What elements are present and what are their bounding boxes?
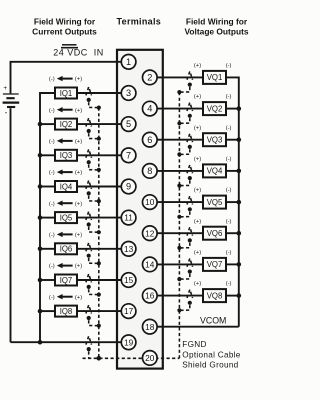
terminal 9 <box>121 179 136 194</box>
svg-text:IQ4: IQ4 <box>60 182 73 191</box>
junction: IQ4 on return bus <box>38 184 43 189</box>
terminal 16 <box>143 288 158 303</box>
voltage polarity labels for VQ4 <box>194 157 232 163</box>
cable shield symbol for 24 VDC supply cable <box>86 336 92 358</box>
terminal 15 <box>121 273 136 288</box>
load box VQ4 <box>203 164 226 177</box>
voltage polarity labels for VQ8 <box>194 281 232 287</box>
terminal 14 <box>143 257 158 272</box>
svg-text:IQ5: IQ5 <box>60 213 73 222</box>
svg-text:(-): (-) <box>49 233 55 239</box>
cable shield symbol for VQ3 <box>181 134 193 155</box>
wire: IQ6 to return bus <box>40 248 55 250</box>
current polarity labels and arrow for IQ1 <box>49 76 82 83</box>
terminal 17 <box>121 304 136 319</box>
voltage polarity labels for VQ2 <box>194 94 232 100</box>
voltage polarity labels for VQ1 <box>194 63 232 69</box>
header: Field Wiring for Current Outputs <box>32 17 97 37</box>
junction: IQ5 on return bus <box>38 215 43 220</box>
junction: IQ7 shield drain on left bus <box>97 293 101 297</box>
svg-text:16: 16 <box>145 291 155 301</box>
wire: terminal 3 to IQ1 <box>77 92 123 94</box>
junction: VQ8 shield drain on right bus <box>177 308 181 312</box>
svg-text:IQ8: IQ8 <box>60 307 73 316</box>
junction: IQ8 on return bus <box>38 309 43 314</box>
load box IQ6 <box>55 243 77 254</box>
svg-text:-: - <box>5 108 8 117</box>
load box IQ5 <box>55 212 77 223</box>
svg-text:(+): (+) <box>194 157 201 163</box>
cable shield symbol for VQ6 <box>181 227 193 248</box>
svg-text:(-): (-) <box>226 281 232 287</box>
wire: VQ6 to common bus <box>226 232 239 234</box>
svg-text:11: 11 <box>124 213 133 223</box>
svg-text:(+): (+) <box>194 125 201 131</box>
svg-text:(+): (+) <box>194 94 201 100</box>
svg-text:Field Wiring for: Field Wiring for <box>186 17 248 27</box>
svg-text:VQ8: VQ8 <box>207 291 223 300</box>
svg-text:(-): (-) <box>49 139 55 145</box>
junction: VQ2 shield drain on right bus <box>177 121 181 125</box>
svg-text:Current Outputs: Current Outputs <box>32 27 97 37</box>
wire: terminal 8 to VQ4 <box>156 170 203 172</box>
svg-text:VQ4: VQ4 <box>207 167 223 176</box>
svg-text:24 VDC IN: 24 VDC IN <box>53 48 104 58</box>
junction: IQ2 shield drain on left bus <box>97 137 101 141</box>
wire: IQ5 to return bus <box>40 217 55 219</box>
svg-text:(-): (-) <box>226 125 232 131</box>
svg-text:15: 15 <box>124 275 134 285</box>
junction: VQ7 shield drain on right bus <box>177 277 181 281</box>
terminal 4 <box>143 101 158 116</box>
terminal 6 <box>143 132 158 147</box>
svg-text:8: 8 <box>147 166 152 176</box>
terminal 13 <box>121 242 136 257</box>
load box VQ6 <box>203 227 226 240</box>
svg-text:FGND: FGND <box>182 340 206 349</box>
wire: terminal 10 to VQ5 <box>156 201 203 203</box>
junction: VQ4 on common bus <box>237 169 242 174</box>
svg-text:IQ7: IQ7 <box>60 276 73 285</box>
junction: VQ8 on common bus <box>237 293 242 298</box>
wire: terminal 17 to IQ8 <box>77 310 123 312</box>
wire: VQ3 to common bus <box>226 139 239 141</box>
svg-text:(+): (+) <box>75 201 82 207</box>
cable shield symbol for VQ2 <box>181 103 193 124</box>
current polarity labels and arrow for IQ3 <box>49 138 82 145</box>
voltage polarity labels for VQ7 <box>194 250 232 256</box>
cable shield symbol for VQ4 <box>181 165 193 186</box>
wire: terminal 6 to VQ3 <box>156 139 203 141</box>
svg-text:(+): (+) <box>194 219 201 225</box>
terminal 12 <box>143 226 158 241</box>
svg-text:7: 7 <box>126 150 131 160</box>
svg-text:Voltage Outputs: Voltage Outputs <box>184 27 248 37</box>
terminal 5 <box>121 117 136 132</box>
svg-text:12: 12 <box>145 228 155 238</box>
cable shield symbol for IQ3 <box>86 149 98 170</box>
wire: VQ5 to common bus <box>226 201 239 203</box>
wire: terminal 11 to IQ5 <box>77 217 123 219</box>
svg-text:(+): (+) <box>194 63 201 69</box>
load box VQ3 <box>203 133 226 146</box>
wire: terminal 9 to IQ4 <box>77 186 123 188</box>
junction: VQ7 on common bus <box>237 262 242 267</box>
junction: IQ6 on return bus <box>38 247 43 252</box>
svg-text:9: 9 <box>126 182 131 192</box>
wire: terminal 5 to IQ2 <box>77 123 123 125</box>
svg-text:VQ3: VQ3 <box>207 136 223 145</box>
current polarity labels and arrow for IQ6 <box>49 232 82 239</box>
wire: IQ7 to return bus <box>40 279 55 281</box>
svg-text:(+): (+) <box>75 77 82 83</box>
wire: battery positive to terminal 1 <box>11 62 124 94</box>
svg-text:(+): (+) <box>194 188 201 194</box>
terminal 18 <box>143 319 158 334</box>
svg-text:2: 2 <box>147 73 152 83</box>
header: Field Wiring for Voltage Outputs <box>184 17 248 37</box>
svg-text:VQ2: VQ2 <box>207 104 223 113</box>
svg-text:10: 10 <box>145 197 155 207</box>
svg-text:(+): (+) <box>75 233 82 239</box>
shield drain dashed bus, left vertical <box>98 108 100 359</box>
junction: IQ3 shield drain on left bus <box>97 168 101 172</box>
wire: VQ7 to common bus <box>226 263 239 265</box>
current polarity labels and arrow for IQ8 <box>49 294 82 301</box>
wire: VQ4 to common bus <box>226 170 239 172</box>
svg-text:IQ6: IQ6 <box>60 245 73 254</box>
terminal 19 <box>121 335 136 350</box>
load box IQ2 <box>55 119 77 130</box>
svg-text:(-): (-) <box>226 219 232 225</box>
voltage polarity labels for VQ5 <box>194 188 232 194</box>
terminal 11 <box>121 210 136 225</box>
junction: VQ2 on common bus <box>237 106 242 111</box>
junction: IQ3 on return bus <box>38 153 43 158</box>
svg-text:+: + <box>3 85 7 92</box>
cable shield symbol for IQ5 <box>86 212 98 233</box>
svg-text:VQ1: VQ1 <box>207 73 223 82</box>
svg-text:(+): (+) <box>75 170 82 176</box>
svg-text:Field Wiring for: Field Wiring for <box>34 17 96 27</box>
svg-text:17: 17 <box>124 306 134 316</box>
current polarity labels and arrow for IQ5 <box>49 201 82 208</box>
load box IQ3 <box>55 150 77 161</box>
label: FGND / Optional Cable Shield Ground <box>182 340 241 369</box>
svg-text:(+): (+) <box>75 108 82 114</box>
svg-text:IQ1: IQ1 <box>60 89 73 98</box>
svg-text:(-): (-) <box>226 188 232 194</box>
load box VQ8 <box>203 289 226 302</box>
svg-text:19: 19 <box>124 337 134 347</box>
terminal 20 <box>143 351 158 366</box>
wire: IQ2 to return bus <box>40 123 55 125</box>
cable shield symbol for IQ8 <box>86 305 98 326</box>
svg-text:13: 13 <box>124 244 134 254</box>
svg-text:Shield Ground: Shield Ground <box>182 361 238 370</box>
svg-text:VQ7: VQ7 <box>207 260 223 269</box>
wire: IQ4 to return bus <box>40 186 55 188</box>
wire: IQ3 to return bus <box>40 154 55 156</box>
load box VQ2 <box>203 102 226 115</box>
cable shield symbol for VQ5 <box>181 196 193 217</box>
cable shield symbol for IQ2 <box>86 118 98 139</box>
junction: IQ7 on return bus <box>38 278 43 283</box>
svg-text:4: 4 <box>147 104 152 114</box>
junction: IQ6 shield drain on left bus <box>97 261 101 265</box>
svg-text:VCOM: VCOM <box>200 316 226 326</box>
terminal 3 <box>121 86 136 101</box>
svg-text:(+): (+) <box>194 250 201 256</box>
wire: terminal 2 to VQ1 <box>156 76 203 78</box>
cable shield symbol for IQ6 <box>86 243 98 264</box>
load box VQ5 <box>203 196 226 209</box>
svg-text:(+): (+) <box>75 264 82 270</box>
svg-text:3: 3 <box>126 88 131 98</box>
svg-text:18: 18 <box>145 322 155 332</box>
junction: VQ5 on common bus <box>237 200 242 205</box>
junction: VQ3 on common bus <box>237 137 242 142</box>
wire: battery negative to terminal 19 <box>11 341 124 343</box>
junction: IQ8 shield drain on left bus <box>97 324 101 328</box>
junction: VQ4 shield drain on right bus <box>177 184 181 188</box>
wire: terminal 13 to IQ6 <box>77 248 123 250</box>
junction: VQ6 on common bus <box>237 231 242 236</box>
svg-text:(-): (-) <box>226 157 232 163</box>
svg-text:(-): (-) <box>49 201 55 207</box>
svg-text:1: 1 <box>126 57 131 67</box>
load box IQ4 <box>55 181 77 192</box>
wire: VQ2 to common bus <box>226 108 239 110</box>
cable shield symbol for IQ7 <box>86 274 98 295</box>
svg-text:(+): (+) <box>194 281 201 287</box>
svg-text:IQ3: IQ3 <box>60 151 73 160</box>
svg-text:(-): (-) <box>49 108 55 114</box>
svg-text:(-): (-) <box>226 63 232 69</box>
svg-text:(-): (-) <box>226 94 232 100</box>
load box VQ7 <box>203 258 226 271</box>
svg-text:VQ5: VQ5 <box>207 198 223 207</box>
cable shield symbol for VQ1 <box>181 71 193 92</box>
current polarity labels and arrow for IQ2 <box>49 107 82 114</box>
cable shield symbol for IQ4 <box>86 180 98 201</box>
cable shield symbol for VQ7 <box>181 258 193 279</box>
junction: left bus corner at shield ground <box>97 356 102 361</box>
svg-text:6: 6 <box>147 135 152 145</box>
wire: VQ common return bus (right vertical) <box>226 77 239 326</box>
battery B1 (24 VDC) <box>3 85 20 117</box>
load box IQ1 <box>55 88 77 99</box>
svg-text:14: 14 <box>145 260 155 270</box>
svg-text:(-): (-) <box>49 170 55 176</box>
wire: terminal 18 VCOM to common bus <box>156 326 239 328</box>
svg-text:(-): (-) <box>49 264 55 270</box>
cable shield symbol for VQ8 <box>181 290 193 311</box>
junction: return bus joins terminal 19 wire <box>38 340 43 345</box>
terminal block outline <box>117 50 163 369</box>
wire: VQ8 to common bus <box>226 295 239 297</box>
cable shield symbol for IQ1 <box>86 87 98 108</box>
DC supply polarity bars <box>61 45 78 48</box>
svg-text:(+): (+) <box>75 139 82 145</box>
junction: VQ3 shield drain on right bus <box>177 152 181 156</box>
wire: IQ8 to return bus <box>40 310 55 312</box>
load box VQ1 <box>203 71 226 84</box>
terminal 1 <box>121 55 136 70</box>
junction: VQ1 shield drain on right bus <box>177 90 181 94</box>
svg-text:(-): (-) <box>226 250 232 256</box>
voltage polarity labels for VQ6 <box>194 219 232 225</box>
wire: terminal 7 to IQ3 <box>77 154 123 156</box>
voltage polarity labels for VQ3 <box>194 125 232 131</box>
shield drain dashed bus, bottom horizontal to terminal 20 <box>83 357 180 359</box>
junction: IQ5 shield drain on left bus <box>97 230 101 234</box>
load box IQ8 <box>55 306 77 317</box>
junction: VQ5 shield drain on right bus <box>177 215 181 219</box>
svg-text:Terminals: Terminals <box>117 17 162 27</box>
junction: IQ2 on return bus <box>38 122 43 127</box>
svg-text:IQ2: IQ2 <box>60 120 73 129</box>
svg-text:(-): (-) <box>49 77 55 83</box>
load box IQ7 <box>55 275 77 286</box>
wire: IQ return bus (left vertical) <box>40 93 55 342</box>
wire: terminal 16 to VQ8 <box>156 295 203 297</box>
junction: VQ6 shield drain on right bus <box>177 246 181 250</box>
svg-text:5: 5 <box>126 119 131 129</box>
junction: IQ1 shield drain on left bus <box>97 106 101 110</box>
shield drain dashed bus, right vertical <box>178 92 180 358</box>
terminal 7 <box>121 148 136 163</box>
svg-text:Optional Cable: Optional Cable <box>182 350 241 359</box>
junction: IQ4 shield drain on left bus <box>97 199 101 203</box>
wire: terminal 12 to VQ6 <box>156 232 203 234</box>
terminal 2 <box>143 70 158 85</box>
wire: terminal 14 to VQ7 <box>156 263 203 265</box>
wire: terminal 4 to VQ2 <box>156 108 203 110</box>
wire: terminal 15 to IQ7 <box>77 279 123 281</box>
current polarity labels and arrow for IQ7 <box>49 263 82 270</box>
svg-text:VQ6: VQ6 <box>207 229 223 238</box>
svg-text:(+): (+) <box>75 295 82 301</box>
wire: battery negative down the left side <box>10 108 12 342</box>
svg-text:20: 20 <box>145 353 155 363</box>
current polarity labels and arrow for IQ4 <box>49 169 82 176</box>
terminal 8 <box>143 164 158 179</box>
svg-text:(-): (-) <box>49 295 55 301</box>
terminal 10 <box>143 195 158 210</box>
